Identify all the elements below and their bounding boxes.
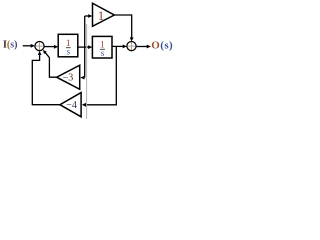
integrator block G2 (1/s) (92, 36, 112, 58)
arrowhead into S2 left (123, 45, 127, 49)
svg-text:I(s): I(s) (3, 39, 18, 50)
gain H2 triangle (value -4) (60, 93, 81, 117)
S2 plus sign vertical stroke (131, 43, 133, 50)
G2 fraction bar (100, 48, 105, 50)
wire S2 to O(s) (136, 46, 148, 48)
arrowhead into H0 (88, 14, 92, 18)
arrowhead into S2 top (130, 37, 134, 41)
wire H2 output to S1 bottom (left, up, jog right, up) (32, 54, 60, 104)
svg-text:O(s): O(s) (151, 40, 173, 52)
arrowhead into G2 (88, 45, 92, 49)
S2 plus sign horizontal stroke (128, 45, 135, 47)
G1 fraction bar (66, 47, 71, 49)
summing junction S2 (127, 42, 136, 51)
stray gray vertical line artifact (86, 24, 88, 119)
integrator block G1 (1/s) (58, 34, 78, 57)
wire J1 to gain H0 input (85, 15, 90, 17)
wire J2 down to gain H2 input (85, 46, 116, 104)
arrowhead into S1 left (31, 44, 35, 48)
arrowhead at O(s) (147, 45, 151, 49)
svg-text:−4: −4 (66, 100, 77, 111)
svg-text:−3: −3 (63, 72, 74, 83)
arrowhead into G1 (54, 45, 58, 49)
svg-text:s: s (66, 47, 70, 57)
arrowhead into S1 lower-right (43, 50, 47, 54)
wire H0 output to S2 top (114, 15, 131, 38)
wire S1 to integrator G1 (44, 46, 55, 48)
S1 plus sign vertical stroke (39, 43, 41, 50)
wire I(s) to summing junction S1 (23, 45, 32, 47)
summing junction S1 (35, 42, 44, 51)
arrowhead into H1 base (80, 76, 84, 80)
wire junction J1 vertical (to gain H0 above and gain H1 below) (84, 16, 86, 78)
wire G1 to G2 with junction J1 (78, 46, 89, 48)
gain H0 triangle (value 1) (93, 3, 115, 26)
svg-text:s: s (101, 49, 105, 59)
wire H1 output to S1 (left, up, diagonal) (45, 53, 56, 78)
svg-text:1: 1 (98, 8, 105, 23)
S1 plus sign horizontal stroke (36, 45, 43, 47)
wire G2 to S2 with junction J2 (112, 45, 124, 47)
arrowhead into S1 bottom (38, 51, 42, 55)
gain H1 triangle (value -3) (57, 65, 80, 89)
arrowhead into H2 base (82, 103, 86, 107)
